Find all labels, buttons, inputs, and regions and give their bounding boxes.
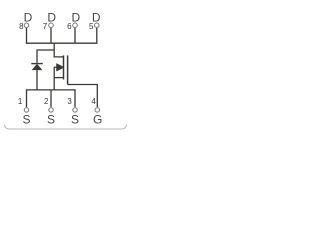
wire pin6 to drain bus [74, 28, 76, 43]
source bus wire [26, 89, 76, 91]
background [0, 0, 134, 133]
diode anode wire to source bus [36, 70, 38, 90]
drain feed wire (bus to MOSFET drain corner) [54, 43, 63, 57]
svg-text:S: S [47, 113, 55, 127]
pin 5 terminal circle [95, 23, 100, 28]
svg-text:S: S [71, 113, 79, 127]
svg-text:6: 6 [67, 22, 72, 31]
svg-text:4: 4 [91, 97, 96, 106]
svg-text:7: 7 [43, 22, 48, 31]
diode D1 anode triangle [32, 64, 42, 70]
svg-text:G: G [93, 113, 102, 127]
svg-text:D: D [24, 11, 33, 25]
MOSFET source vertical wire [53, 67, 55, 90]
svg-text:3: 3 [67, 97, 72, 106]
gate lead wire to pin 4 [68, 85, 98, 108]
diode D1 cathode bar [31, 63, 43, 65]
svg-text:1: 1 [18, 97, 23, 106]
svg-text:D: D [71, 11, 80, 25]
svg-text:8: 8 [19, 22, 24, 31]
pin 8 terminal circle [24, 23, 29, 28]
svg-text:2: 2 [44, 97, 49, 106]
svg-text:D: D [47, 11, 56, 25]
svg-text:5: 5 [89, 22, 94, 31]
wire pin5 to drain bus [96, 28, 98, 43]
diode cathode branch wire [37, 50, 54, 63]
panel bottom border (rounded) [5, 125, 127, 130]
wire source bus to pin 1 [26, 90, 28, 107]
pin 3 terminal circle [73, 108, 78, 113]
wire pin8 to drain bus [26, 28, 28, 43]
pin 7 terminal circle [49, 23, 54, 28]
wire source bus to pin 2 [50, 90, 52, 107]
drain bus wire [26, 42, 98, 44]
wire pin7 to drain bus [50, 28, 52, 43]
MOSFET Q1 channel bar [63, 55, 65, 79]
pin 6 terminal circle [73, 23, 78, 28]
MOSFET body arrow head [57, 64, 65, 72]
wire source bus to pin 3 [74, 90, 76, 107]
MOSFET source stub [54, 77, 63, 79]
MOSFET body arrow line [54, 66, 58, 68]
pin 1 terminal circle [24, 108, 29, 113]
pin 4 terminal circle [95, 108, 100, 113]
svg-text:S: S [22, 113, 30, 127]
MOSFET gate bar [67, 55, 69, 84]
pin 2 terminal circle [49, 108, 54, 113]
